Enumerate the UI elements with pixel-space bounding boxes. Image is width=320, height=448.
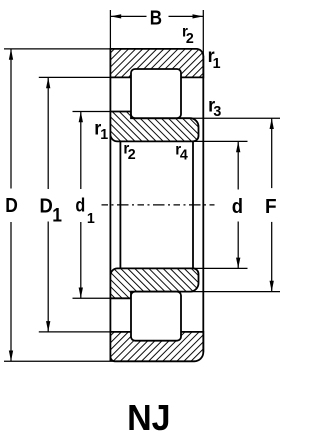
svg-text:2: 2 (128, 146, 136, 162)
centerline (102, 204, 215, 206)
svg-text:3: 3 (213, 103, 221, 119)
roller bottom (131, 292, 181, 341)
B extension line left (109, 10, 111, 49)
inner ring bottom section (110, 268, 198, 298)
d1 bottom extension (73, 297, 111, 299)
D bottom extension (4, 360, 114, 362)
svg-text:F: F (265, 195, 277, 218)
label d1 (75, 194, 85, 216)
label r1 left (94, 117, 101, 139)
wire: right bore chamfer edge line (192, 141, 194, 268)
label F (265, 195, 277, 218)
inner ring top section (110, 112, 198, 142)
label B (150, 6, 162, 29)
svg-text:d: d (232, 196, 243, 218)
F top extension (185, 117, 280, 119)
B extension line right (202, 10, 204, 56)
d top extension (193, 140, 248, 142)
label d (232, 196, 243, 218)
label r3 right (208, 94, 215, 116)
roller top (131, 69, 181, 118)
label r1 top right (208, 45, 215, 67)
svg-text:1: 1 (100, 127, 108, 143)
svg-text:D: D (5, 194, 18, 216)
svg-text:1: 1 (52, 204, 62, 226)
F bottom extension (185, 291, 280, 293)
label D1 (40, 196, 53, 218)
D top extension (4, 48, 110, 50)
wire: left bore chamfer edge line (119, 141, 121, 268)
D1 dimension line (47, 77, 49, 189)
d dimension line (237, 141, 239, 189)
outer ring top section (110, 49, 203, 78)
svg-text:d: d (75, 194, 85, 216)
svg-text:B: B (150, 6, 162, 29)
d bottom extension (193, 267, 248, 269)
B dimension line (110, 15, 146, 17)
svg-text:1: 1 (87, 211, 95, 227)
svg-text:4: 4 (180, 147, 189, 163)
F dimension line (271, 118, 273, 188)
wire: left face projection line (109, 49, 111, 361)
outer ring bottom section (110, 332, 203, 361)
d1 top extension (73, 111, 111, 113)
wire: right face projection line (202, 56, 204, 352)
D1 top extension (39, 76, 111, 78)
label D (5, 194, 18, 216)
svg-text:D: D (40, 196, 53, 218)
svg-text:NJ: NJ (127, 398, 170, 438)
D dimension line (10, 49, 12, 189)
label r4 inner (175, 141, 181, 158)
label r2 inner (123, 140, 129, 157)
label NJ (127, 398, 170, 438)
label r2 top (182, 23, 188, 40)
d1 dimension line (80, 112, 82, 190)
D1 bottom extension (39, 331, 111, 333)
svg-text:2: 2 (186, 31, 194, 47)
svg-text:1: 1 (213, 55, 221, 71)
